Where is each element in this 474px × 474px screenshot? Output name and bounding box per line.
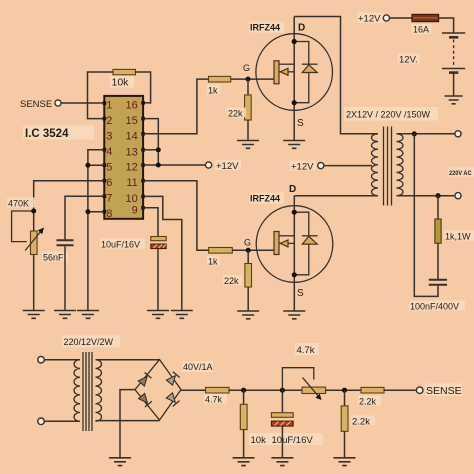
svg-text:12: 12 — [126, 162, 138, 174]
node mains input terminal top — [38, 356, 45, 363]
ground (22k Q2) — [237, 311, 259, 319]
svg-text:G: G — [244, 238, 251, 248]
wire 2.2k to SENSE terminal — [384, 389, 416, 391]
MOSFET Q1 gate bar — [274, 61, 279, 84]
node SENSE output terminal — [416, 387, 423, 394]
label +12V (center tap) — [290, 161, 316, 173]
svg-text:13: 13 — [126, 146, 138, 158]
resistor 4.7k (series) — [206, 387, 230, 393]
svg-text:220V AC: 220V AC — [449, 170, 472, 177]
MOSFET Q2 body diode — [294, 212, 317, 275]
resistor 10k (pin2 to pin16) — [113, 69, 136, 74]
transformer T1 primary winding (2x12V) — [372, 134, 379, 196]
label 12V — [398, 54, 420, 66]
resistor 10k (divider) — [240, 390, 247, 458]
wire 10uF to ground — [281, 426, 283, 458]
svg-text:G: G — [243, 63, 250, 73]
svg-text:+12V: +12V — [291, 162, 314, 173]
svg-text:14: 14 — [126, 130, 138, 142]
junction pin5 bus — [85, 163, 90, 168]
junction pin13 — [156, 147, 161, 152]
svg-text:2.2k: 2.2k — [359, 397, 377, 407]
wire pin12 to +12V terminal — [143, 164, 205, 166]
ground (battery) — [445, 96, 463, 104]
wire snubber return to secondary top — [414, 134, 438, 297]
svg-text:1k: 1k — [208, 257, 218, 267]
wire T1 secondary bottom to output — [397, 195, 456, 197]
svg-text:IRFZ44: IRFZ44 — [250, 194, 280, 204]
wire 10uF node down — [281, 390, 283, 413]
svg-text:10k: 10k — [251, 435, 267, 446]
node +12V battery terminal — [383, 15, 389, 21]
svg-text:16A: 16A — [413, 25, 429, 35]
junction pin8 bus — [85, 209, 90, 214]
wire 1k to gate Q2 — [232, 249, 274, 251]
label 56nF — [42, 252, 68, 263]
label +12V (IC side) — [215, 160, 241, 172]
label 470K — [7, 198, 35, 209]
junction 2.2k node — [342, 388, 347, 393]
ground (10k divider) — [233, 458, 255, 466]
junction 10uF node — [280, 388, 285, 393]
MOSFET Q2 channel line — [293, 196, 295, 311]
label 220V AC — [448, 168, 474, 178]
svg-text:7: 7 — [106, 193, 112, 205]
MOSFET Q2 gate bar — [274, 232, 279, 255]
junction secondary top — [412, 131, 417, 136]
battery dashed middle — [453, 40, 455, 67]
junction gate Q1 — [246, 77, 251, 82]
ground (pin4-5-8 bus) — [77, 311, 99, 319]
svg-text:12V.: 12V. — [399, 55, 418, 66]
svg-text:15: 15 — [126, 115, 138, 127]
label 100nF/400V — [409, 301, 465, 312]
svg-text:D: D — [298, 23, 305, 34]
ground (10uF) — [147, 311, 169, 319]
MOSFET Q2 drain connector — [279, 235, 294, 237]
wire SENSE to IC pin 1 — [61, 102, 104, 104]
node SENSE input terminal (top left) — [55, 100, 61, 106]
wire 4.7k to divider row — [229, 389, 302, 391]
label IRFZ44 (Q1) — [249, 22, 284, 33]
label 1k (Q1) — [207, 85, 220, 96]
resistor 22k (gate Q1 to ground) — [245, 79, 252, 140]
wire T2 secondary bottom to bridge AC2 — [96, 420, 160, 422]
potentiometer 470K body — [31, 231, 38, 255]
wire +12V terminal to fuse — [390, 17, 412, 19]
label 1k (Q2) — [207, 256, 220, 267]
bridge rectifier diamond — [135, 360, 181, 421]
label 1k,1W — [444, 231, 474, 242]
resistor 22k (gate Q2 to ground) — [245, 250, 252, 311]
label 220/12V/2W — [62, 336, 120, 348]
node +12V center tap terminal — [318, 163, 324, 169]
wire T2 secondary top to bridge AC1 — [96, 359, 160, 361]
label 10k — [110, 76, 134, 89]
MOSFET Q2 source arrow — [279, 240, 294, 247]
svg-text:8: 8 — [106, 208, 112, 220]
label 10uF/16V — [100, 239, 145, 250]
svg-text:10uF/16V: 10uF/16V — [272, 435, 314, 446]
label 16A — [412, 24, 432, 35]
svg-text:1k: 1k — [208, 86, 218, 96]
svg-text:6: 6 — [106, 177, 112, 189]
MOSFET Q1 channel / drain-source line — [293, 17, 295, 141]
resistor 2.2k (series to SENSE) — [361, 387, 384, 393]
svg-text:I.C 3524: I.C 3524 — [25, 128, 69, 140]
label 22k (Q2) — [223, 275, 242, 286]
transformer T2 core — [83, 352, 92, 431]
svg-text:100nF/400V: 100nF/400V — [410, 302, 459, 312]
svg-text:16: 16 — [126, 100, 138, 112]
wire 10k right to IC pin 16 — [136, 72, 151, 103]
bridge diode D3 (bottom-left) — [138, 393, 152, 407]
bridge diode D2 (top-right) — [166, 372, 180, 386]
label +12V (battery feed) — [357, 13, 384, 25]
wire pin7 to 56nF — [65, 196, 104, 239]
wire pin14 to gate resistor 1k — [143, 79, 208, 134]
wire bridge negative to ground — [120, 390, 135, 458]
ground (pin10) — [171, 311, 193, 319]
svg-text:SENSE: SENSE — [20, 99, 52, 110]
resistor 1k (gate Q1) — [209, 76, 231, 82]
svg-text:470K: 470K — [8, 199, 29, 209]
ground (bridge) — [109, 458, 131, 466]
ground (22k Q1) — [237, 141, 259, 149]
svg-text:4: 4 — [106, 146, 112, 158]
transformer T2 secondary winding (12V) — [96, 360, 102, 422]
junction 470K top — [31, 209, 36, 214]
node 220V AC output terminal top — [455, 131, 461, 137]
svg-text:10uF/16V: 10uF/16V — [101, 240, 140, 250]
svg-text:22k: 22k — [228, 109, 243, 119]
capacitor 10uF/16V (soft start) — [271, 413, 293, 426]
fuse 16A — [412, 14, 439, 21]
wire pin6 to potentiometer 470K — [34, 181, 105, 231]
wire pin10 to ground — [143, 196, 182, 310]
battery 12V cell 2 — [442, 69, 465, 73]
svg-text:IRFZ44: IRFZ44 — [250, 23, 280, 33]
label 40V/1A — [182, 361, 213, 372]
node +12V supply terminal (IC side) — [206, 162, 212, 168]
battery 12V cell 1 — [442, 33, 465, 37]
label 4.7k (series) — [204, 394, 227, 405]
node mains input terminal bottom — [38, 418, 45, 425]
ground (10uF soft start) — [271, 458, 293, 466]
transformer T1 secondary winding (220V) — [397, 134, 404, 196]
wire pot to 2.2k — [326, 389, 361, 391]
wire 56nF to ground — [64, 246, 66, 310]
wire pin9 to capacitor 10uF — [143, 208, 158, 237]
svg-text:220/12V/2W: 220/12V/2W — [64, 337, 114, 347]
label 2.2k (series) — [358, 396, 381, 407]
svg-text:S: S — [297, 288, 304, 299]
svg-text:D: D — [289, 184, 296, 195]
label 4.7k (pot) — [295, 343, 319, 356]
MOSFET Q1 drain connector — [279, 63, 294, 65]
MOSFET Q2 IRFZ44 circle — [256, 206, 333, 283]
resistor 2.2k (divider) — [341, 390, 348, 458]
wire mains top to T2 primary — [44, 359, 80, 361]
wire 1k to gate Q1 — [231, 78, 274, 80]
junction 10k node — [241, 388, 246, 393]
junction secondary bottom — [435, 193, 440, 198]
ground (Q2 source) — [283, 311, 305, 319]
wire 470K wiper loop — [12, 211, 34, 242]
label 10k (divider) — [249, 433, 272, 446]
wire pin15 down bus to pin12 row — [143, 119, 158, 165]
svg-text:1k,1W: 1k,1W — [445, 232, 471, 242]
wire 10k left to IC pin 2 — [88, 72, 114, 119]
svg-text:4.7k: 4.7k — [205, 395, 223, 405]
svg-text:56nF: 56nF — [43, 253, 64, 263]
IC pin connection dots — [103, 101, 145, 213]
wire 4.7k pot wiper loop — [282, 368, 313, 391]
capacitor 56nF — [57, 240, 74, 245]
label 10uF/16V (soft start) — [270, 433, 323, 446]
potentiometer 470K wiper arrow — [25, 228, 44, 251]
junction Q1 drain-diode — [292, 39, 297, 44]
potentiometer 4.7k wiper arrow — [303, 378, 322, 401]
wire pin13 to bus — [143, 149, 158, 151]
wire mains bottom to T2 primary — [44, 420, 80, 422]
svg-text:5: 5 — [106, 162, 112, 174]
node 220V AC output terminal bottom — [455, 193, 461, 199]
potentiometer 4.7k body — [302, 387, 326, 393]
svg-text:S: S — [297, 118, 304, 129]
label 2.2k (divider) — [351, 416, 375, 428]
wire Q1 drain to transformer primary top — [294, 17, 378, 134]
svg-text:SENSE: SENSE — [426, 385, 462, 397]
MOSFET Q1 body diode — [294, 42, 317, 103]
svg-text:40V/1A: 40V/1A — [183, 362, 213, 372]
junction gate Q2 — [246, 248, 251, 253]
MOSFET Q1 IRFZ44 circle — [256, 34, 333, 111]
label IRFZ44 (Q2) — [249, 193, 284, 204]
svg-text:10: 10 — [126, 193, 138, 205]
ground (2.2k divider) — [334, 458, 356, 466]
svg-text:9: 9 — [132, 204, 138, 216]
wire pin11 to gate resistor 1k Q2 — [143, 181, 209, 251]
transformer T1 core — [384, 127, 392, 206]
ground (470K) — [23, 311, 45, 319]
MOSFET Q1 source arrow — [279, 68, 294, 75]
wire 470K to ground — [33, 255, 35, 311]
label I.C 3524 — [23, 126, 94, 141]
svg-text:11: 11 — [126, 177, 137, 189]
junction Q2 source-diode — [292, 272, 297, 277]
transformer T2 primary winding (220V) — [74, 360, 80, 422]
wire 10uF to ground — [157, 249, 159, 311]
junction Q2 drain-diode — [292, 210, 297, 215]
svg-text:22k: 22k — [224, 276, 239, 286]
svg-text:10k: 10k — [112, 77, 130, 89]
bridge diode D1 (top-left) — [138, 373, 152, 387]
wire pin4/pin5/pin8 bus to ground — [88, 150, 104, 311]
svg-text:+12V: +12V — [216, 161, 239, 172]
label 2X12V / 220V /150W — [344, 107, 438, 121]
ground (56nF) — [54, 311, 76, 319]
svg-text:2: 2 — [106, 115, 112, 127]
svg-text:4.7k: 4.7k — [297, 345, 315, 356]
svg-text:1: 1 — [106, 100, 112, 112]
wire battery to ground — [453, 74, 455, 97]
resistor 1k (gate Q2) — [209, 248, 233, 254]
label 22k (Q1) — [227, 108, 246, 119]
wire Q2 drain to T1 primary bottom — [294, 195, 378, 197]
svg-text:2X12V / 220V /150W: 2X12V / 220V /150W — [346, 110, 431, 120]
wire T1 secondary top to output — [397, 133, 456, 135]
svg-text:+12V: +12V — [358, 14, 381, 25]
resistor 1k,1W (snubber) — [435, 196, 441, 279]
junction Q1 source-diode — [292, 100, 297, 105]
ground (Q1 source) — [283, 141, 305, 149]
wire fuse to battery — [439, 18, 454, 33]
bridge diode D4 (bottom-right) — [166, 393, 180, 407]
label SENSE (output) — [425, 384, 462, 398]
junction pin12 — [156, 163, 161, 168]
capacitor 10uF/16V electrolytic (timing) — [151, 237, 166, 249]
wire bridge positive to 4.7k — [181, 389, 206, 391]
svg-text:3: 3 — [106, 131, 112, 143]
capacitor 100nF/400V (snubber) — [429, 280, 447, 285]
wire center tap to T1 primary — [324, 165, 372, 167]
svg-text:2.2k: 2.2k — [352, 417, 370, 428]
IC U1 SG3524 body — [104, 96, 143, 219]
